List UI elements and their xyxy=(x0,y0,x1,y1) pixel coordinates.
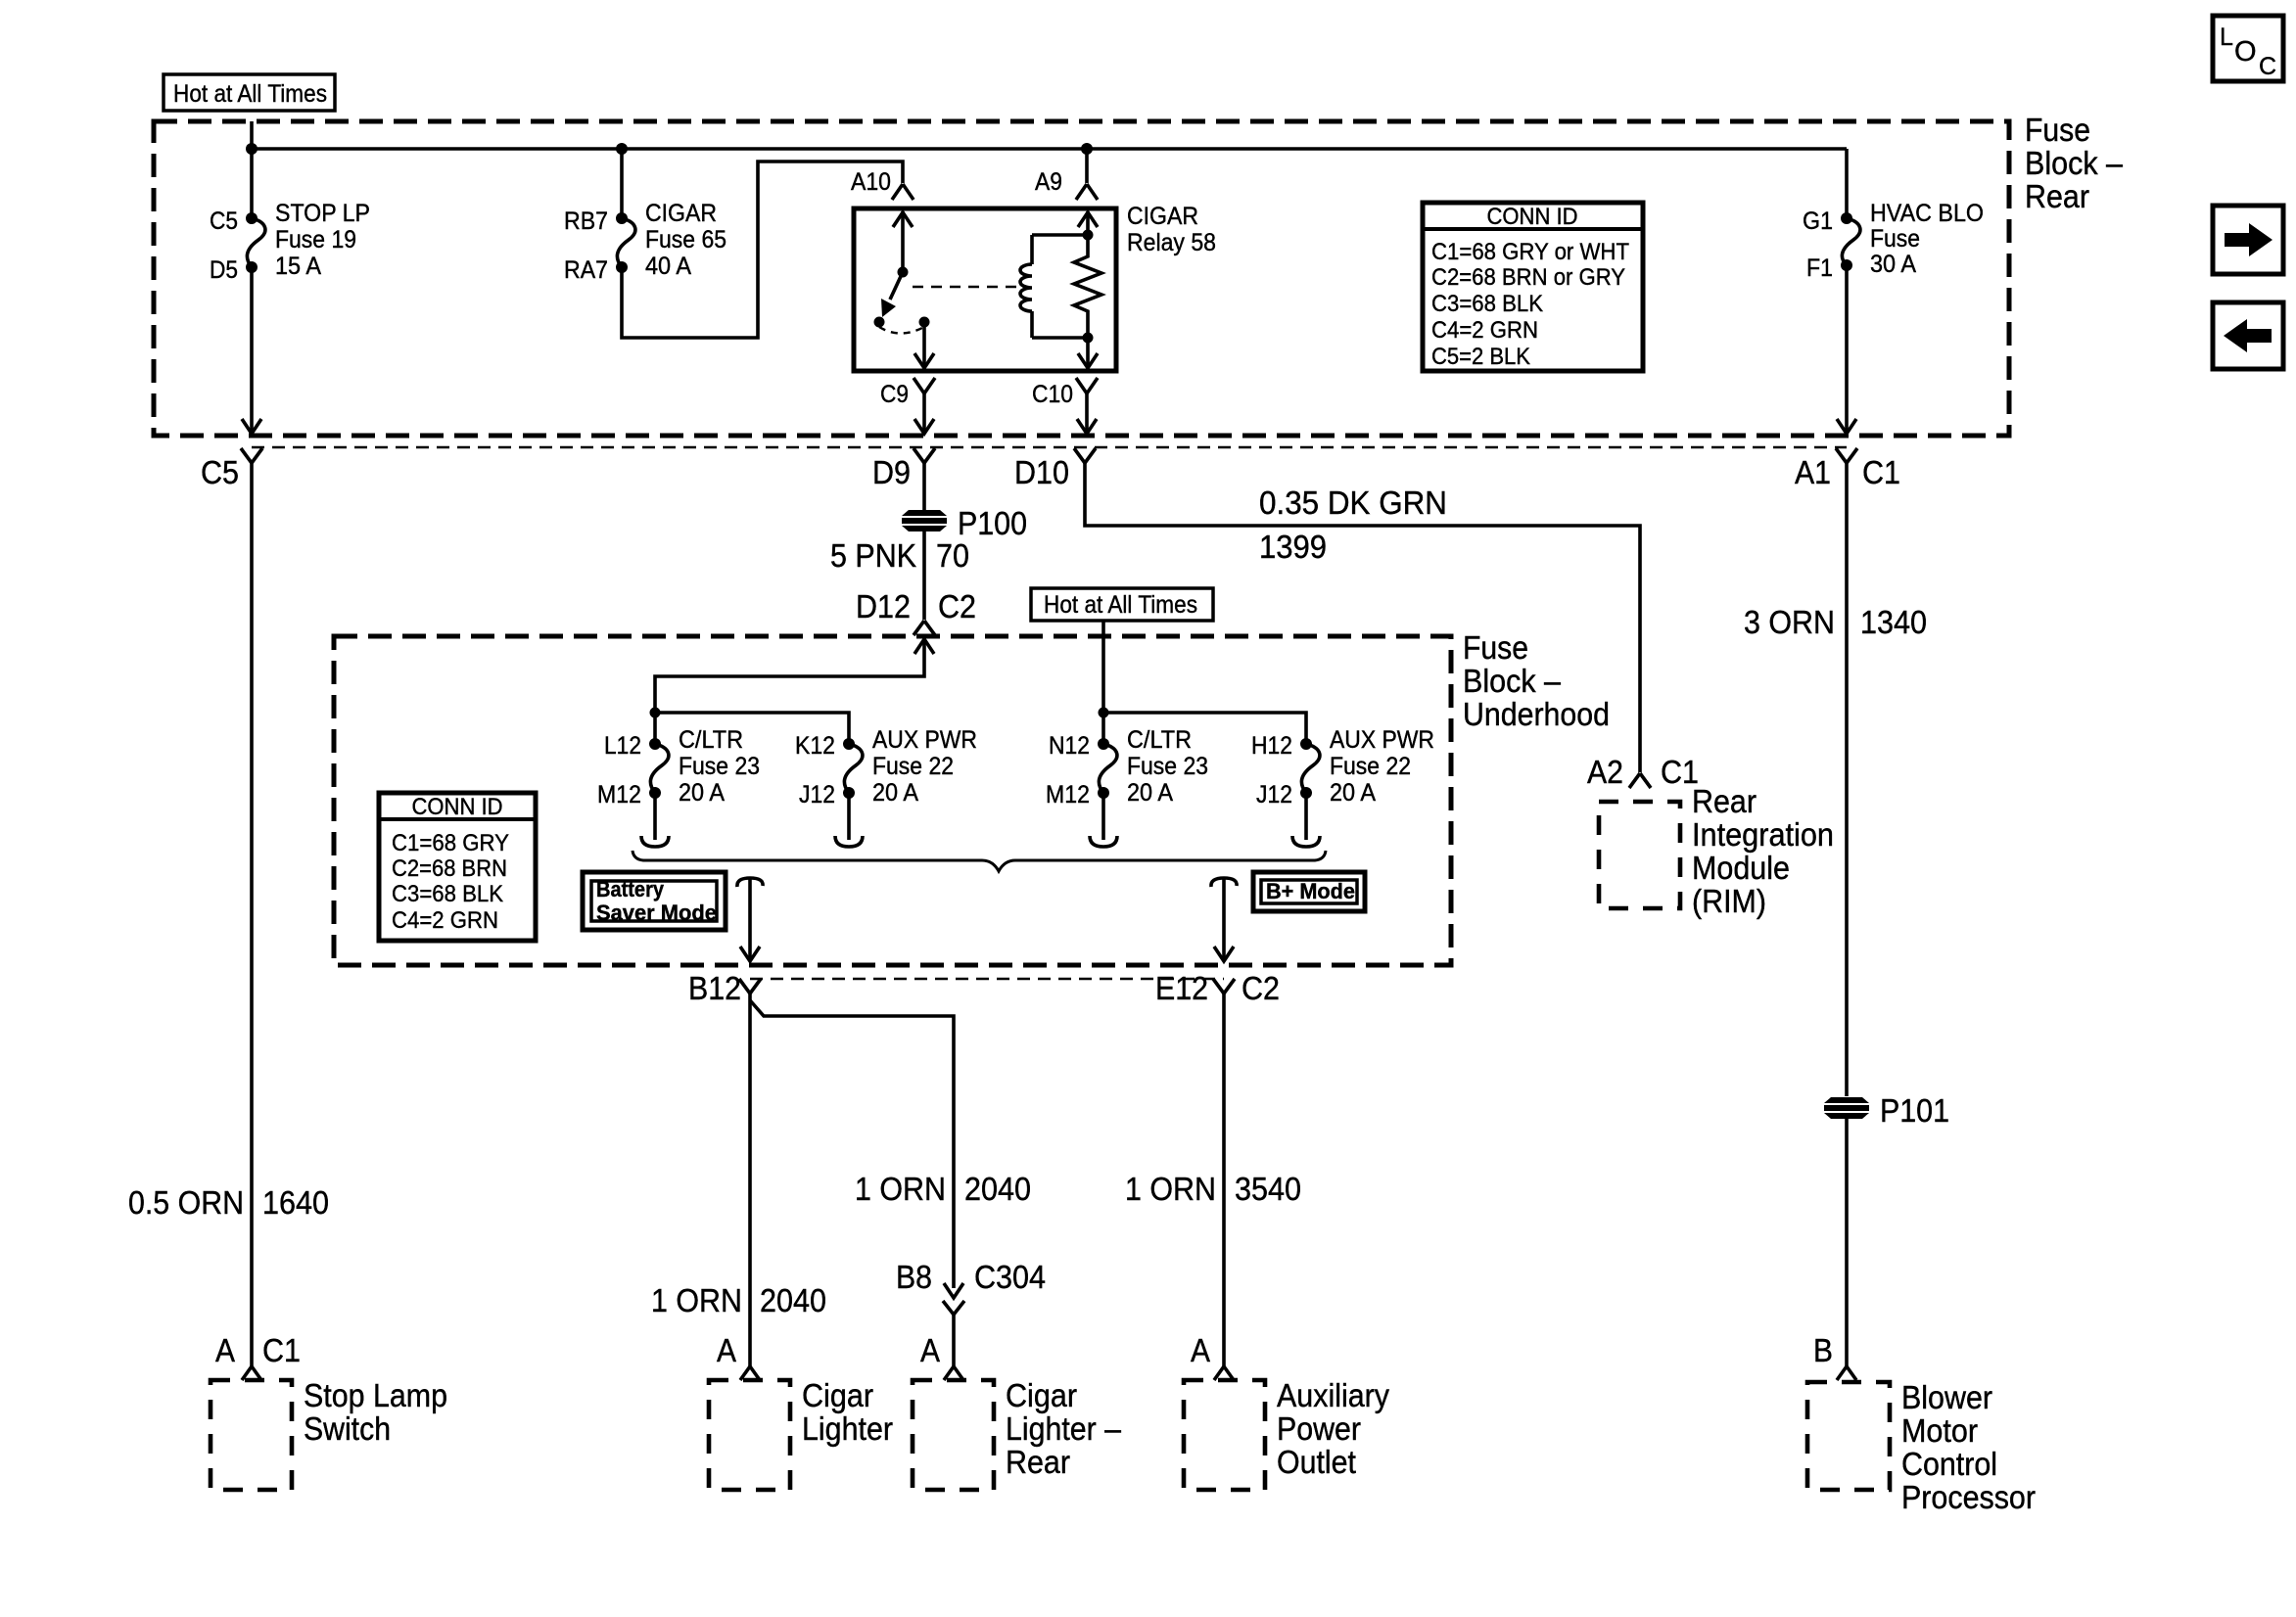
svg-text:Blower: Blower xyxy=(1901,1379,1992,1415)
svg-text:Block –: Block – xyxy=(2025,145,2124,181)
relay CIGAR Relay 58 box xyxy=(854,208,1116,371)
pin A connector and component box Cigar Lighter xyxy=(709,1332,893,1490)
svg-text:C: C xyxy=(2259,53,2276,80)
wire: main bus xyxy=(252,147,1847,151)
svg-text:Integration: Integration xyxy=(1692,816,1834,853)
svg-text:A: A xyxy=(717,1332,736,1368)
wire: bus to HVAC BLO fuse xyxy=(1845,149,1849,218)
svg-text:A10: A10 xyxy=(851,168,891,196)
pin A connector and component box Cigar Lighter - Rear xyxy=(913,1332,1122,1490)
fuse C/LTR Fuse 23 20 A (N12/M12) xyxy=(1046,726,1208,808)
svg-text:Battery: Battery xyxy=(596,877,665,901)
CONN ID table (underhood) xyxy=(379,793,536,941)
relay coil xyxy=(1020,235,1088,338)
svg-text:Cigar: Cigar xyxy=(802,1377,873,1413)
svg-text:STOP LP: STOP LP xyxy=(275,200,370,227)
wire: branch to rear cigar lighter 1 ORN 2040 xyxy=(750,1000,1031,1288)
svg-text:M12: M12 xyxy=(1046,781,1090,808)
relay switch input with up arrow xyxy=(893,211,913,278)
svg-text:CIGAR: CIGAR xyxy=(1127,203,1198,230)
svg-text:C9: C9 xyxy=(880,381,909,408)
svg-text:1640: 1640 xyxy=(262,1184,329,1221)
splice P101 xyxy=(1824,1092,1949,1129)
svg-text:Auxiliary: Auxiliary xyxy=(1277,1377,1389,1413)
svg-text:Rear: Rear xyxy=(1692,783,1757,819)
svg-text:Rear: Rear xyxy=(2025,178,2089,214)
wire: D12 feed into underhood block with up arrow xyxy=(655,639,934,713)
svg-text:RA7: RA7 xyxy=(564,256,608,284)
svg-text:RB7: RB7 xyxy=(564,208,608,235)
pin C9 connector and wire to border xyxy=(880,378,935,434)
svg-text:J12: J12 xyxy=(1256,781,1292,808)
svg-text:D9: D9 xyxy=(872,454,911,490)
nav arrow box right xyxy=(2213,206,2283,274)
svg-text:0.5 ORN: 0.5 ORN xyxy=(128,1184,244,1221)
svg-text:G1: G1 xyxy=(1803,208,1833,235)
wire: branch to fuse H12 xyxy=(1103,713,1306,744)
Fuse Block - Rear dashed outline xyxy=(154,121,2009,436)
svg-text:C1: C1 xyxy=(1862,454,1900,490)
svg-text:D5: D5 xyxy=(210,256,238,284)
svg-text:AUX PWR: AUX PWR xyxy=(872,726,977,754)
CONN ID table (rear block) xyxy=(1423,203,1643,371)
connector row dashed line below rear block xyxy=(252,446,1847,448)
relay switch contacts and travel arc xyxy=(874,317,930,334)
svg-text:C10: C10 xyxy=(1032,381,1073,408)
svg-text:0.35 DK GRN: 0.35 DK GRN xyxy=(1259,485,1447,521)
svg-text:CONN ID: CONN ID xyxy=(1487,204,1578,230)
svg-text:Fuse 23: Fuse 23 xyxy=(1127,753,1208,780)
svg-text:Module: Module xyxy=(1692,850,1790,886)
pin B12 connector xyxy=(688,970,761,1006)
wire: feed stub through dashed border xyxy=(250,121,254,149)
node: bus junction at relay A9 xyxy=(1081,143,1093,155)
pin A1 / C1 connector xyxy=(1795,448,1900,490)
svg-text:HVAC BLO: HVAC BLO xyxy=(1870,200,1984,227)
svg-text:20 A: 20 A xyxy=(679,779,725,807)
svg-text:C5: C5 xyxy=(210,208,238,235)
wire: STOP LP output to border with arrow xyxy=(242,267,261,434)
wire: bus drop to CIGAR fuse 65 xyxy=(620,149,624,218)
wire: branch to fuse L12 xyxy=(653,713,657,744)
svg-text:F1: F1 xyxy=(1806,254,1833,282)
relay switch output with down arrow xyxy=(914,322,934,368)
label: Battery Saver Mode xyxy=(583,872,726,930)
svg-text:2040: 2040 xyxy=(760,1282,826,1318)
node: coil-resistor junction top xyxy=(1083,230,1094,241)
svg-text:Fuse 19: Fuse 19 xyxy=(275,226,356,254)
node: bus junction at stop lp fuse xyxy=(246,143,258,155)
svg-text:C2=68 BRN or GRY: C2=68 BRN or GRY xyxy=(1431,264,1625,291)
svg-text:15 A: 15 A xyxy=(275,253,321,280)
fuse STOP LP Fuse 19 15 A (C5/D5) xyxy=(210,200,370,284)
svg-text:Fuse 22: Fuse 22 xyxy=(872,753,954,780)
LOC page icon box xyxy=(2213,16,2283,81)
svg-text:O: O xyxy=(2234,36,2257,68)
svg-text:40 A: 40 A xyxy=(645,253,691,280)
svg-text:5 PNK: 5 PNK xyxy=(830,537,916,574)
svg-text:3 ORN: 3 ORN xyxy=(1744,604,1835,640)
svg-text:Switch: Switch xyxy=(304,1410,391,1447)
Fuse Block - Underhood dashed outline xyxy=(334,636,1451,965)
svg-text:Fuse: Fuse xyxy=(1870,225,1920,253)
pin D12 / C2 connector into underhood block xyxy=(856,588,976,635)
svg-text:L12: L12 xyxy=(604,732,641,760)
svg-text:1399: 1399 xyxy=(1259,529,1327,565)
svg-text:C2: C2 xyxy=(1242,970,1280,1006)
wire: J12 output with hook xyxy=(1304,793,1308,840)
svg-text:2040: 2040 xyxy=(964,1171,1031,1207)
connector row dashed line below underhood block xyxy=(750,978,1224,980)
wire: branch to fuse K12 xyxy=(655,713,849,744)
svg-text:Stop Lamp: Stop Lamp xyxy=(304,1377,447,1413)
svg-text:D12: D12 xyxy=(856,588,911,624)
svg-text:J12: J12 xyxy=(799,781,835,808)
relay resistor with up arrow at pin A9 xyxy=(1074,211,1101,338)
relay actuation dashed link xyxy=(913,286,1018,288)
wire: 0.5 ORN 1640 from C5 to stop lamp switch xyxy=(128,463,329,1366)
svg-text:CIGAR: CIGAR xyxy=(645,200,717,227)
relay switch arm with arrowhead xyxy=(881,272,903,317)
fuse C/LTR Fuse 23 20 A (L12/M12) xyxy=(597,726,760,808)
svg-text:H12: H12 xyxy=(1251,732,1292,760)
pin D9 connector xyxy=(872,448,935,490)
svg-text:C5=2 BLK: C5=2 BLK xyxy=(1431,344,1530,370)
svg-text:A: A xyxy=(215,1332,235,1368)
svg-text:CONN ID: CONN ID xyxy=(412,794,503,820)
wire: M12 output with hook xyxy=(653,793,657,840)
svg-text:Fuse 22: Fuse 22 xyxy=(1330,753,1411,780)
svg-text:Fuse 23: Fuse 23 xyxy=(679,753,760,780)
wire: P101 to blower connector xyxy=(1845,1119,1849,1366)
svg-text:20 A: 20 A xyxy=(1330,779,1376,807)
svg-text:C/LTR: C/LTR xyxy=(1127,726,1192,754)
svg-text:Fuse: Fuse xyxy=(1463,629,1528,666)
fuse HVAC BLO 30 A (G1/F1) xyxy=(1803,200,1984,282)
svg-text:Outlet: Outlet xyxy=(1277,1444,1356,1480)
wire: D10 0.35 DK GRN 1399 to RIM xyxy=(1085,463,1640,772)
wire: bus drop to relay pin A9 xyxy=(1085,149,1089,183)
svg-text:1 ORN: 1 ORN xyxy=(651,1282,742,1318)
pin D10 connector xyxy=(1014,448,1096,490)
svg-text:Fuse 65: Fuse 65 xyxy=(645,226,726,254)
label: CIGAR Relay 58 xyxy=(1127,203,1216,256)
svg-text:AUX PWR: AUX PWR xyxy=(1330,726,1434,754)
fuse AUX PWR Fuse 22 20 A (H12/J12) xyxy=(1251,726,1434,808)
svg-text:Control: Control xyxy=(1901,1446,1997,1482)
svg-text:L: L xyxy=(2220,23,2233,51)
brace gathering fuse outputs xyxy=(633,851,1326,871)
wire: 5 PNK 70 xyxy=(830,531,969,620)
svg-text:Underhood: Underhood xyxy=(1463,696,1610,732)
svg-text:C4=2 GRN: C4=2 GRN xyxy=(392,907,498,934)
svg-text:C/LTR: C/LTR xyxy=(679,726,743,754)
svg-text:D10: D10 xyxy=(1014,454,1069,490)
wire: B12 to cigar lighter 1 ORN 2040 xyxy=(651,993,826,1366)
pin A10 connector xyxy=(851,168,914,200)
label: Hot at All Times (rear block) xyxy=(164,74,335,111)
svg-text:A1: A1 xyxy=(1795,454,1831,490)
svg-text:Block –: Block – xyxy=(1463,663,1562,699)
wire: branch to fuse N12 xyxy=(1101,713,1105,744)
wire: D9 to splice xyxy=(922,463,926,510)
node: left feed junction xyxy=(650,708,661,718)
svg-text:Processor: Processor xyxy=(1901,1479,2036,1515)
relay resistor output with down arrow xyxy=(1078,338,1098,368)
label: Fuse Block - Rear xyxy=(2025,112,2124,214)
svg-text:Hot at All Times: Hot at All Times xyxy=(173,80,327,108)
svg-text:Cigar: Cigar xyxy=(1006,1377,1077,1413)
pin E12 / C2 connector xyxy=(1155,970,1280,1006)
wire: E12 to aux power outlet 1 ORN 3540 xyxy=(1125,993,1301,1366)
label: Fuse Block - Underhood xyxy=(1463,629,1610,732)
wire: M12 output with hook xyxy=(1101,793,1105,840)
svg-text:K12: K12 xyxy=(795,732,835,760)
svg-text:C3=68 BLK: C3=68 BLK xyxy=(1431,291,1543,317)
svg-text:1 ORN: 1 ORN xyxy=(855,1171,946,1207)
svg-text:Rear: Rear xyxy=(1006,1444,1070,1480)
node: right feed junction xyxy=(1099,708,1109,718)
pin A2 / C1 connector at RIM xyxy=(1587,754,1699,790)
node: bus junction at cigar fuse xyxy=(616,143,628,155)
fuse AUX PWR Fuse 22 20 A (K12/J12) xyxy=(795,726,977,808)
fuse CIGAR Fuse 65 40 A (RB7/RA7) xyxy=(564,200,726,284)
svg-text:P101: P101 xyxy=(1880,1092,1949,1129)
in-line connector B8 / C304 xyxy=(896,1259,1046,1366)
svg-text:1 ORN: 1 ORN xyxy=(1125,1171,1216,1207)
pin B connector and component box Blower Motor Control Processor xyxy=(1807,1332,2036,1515)
svg-text:(RIM): (RIM) xyxy=(1692,883,1766,919)
svg-text:Lighter –: Lighter – xyxy=(1006,1410,1122,1447)
svg-text:N12: N12 xyxy=(1049,732,1090,760)
svg-text:C5: C5 xyxy=(201,454,239,490)
svg-text:C4=2 GRN: C4=2 GRN xyxy=(1431,317,1538,344)
svg-text:M12: M12 xyxy=(597,781,641,808)
svg-text:A: A xyxy=(920,1332,940,1368)
svg-text:A2: A2 xyxy=(1587,754,1623,790)
wire: HVAC output to border with arrow xyxy=(1837,265,1856,434)
svg-text:E12: E12 xyxy=(1155,970,1208,1006)
svg-text:C1: C1 xyxy=(262,1332,301,1368)
svg-text:Fuse: Fuse xyxy=(2025,112,2090,148)
wire: A1 3 ORN 1340 down right side xyxy=(1744,463,1927,1096)
nav arrow box left xyxy=(2213,302,2283,369)
svg-text:A9: A9 xyxy=(1035,168,1062,196)
svg-text:C304: C304 xyxy=(974,1259,1046,1295)
pin C10 connector and wire to border xyxy=(1032,378,1098,434)
svg-text:B: B xyxy=(1813,1332,1833,1368)
svg-text:C3=68 BLK: C3=68 BLK xyxy=(392,881,503,907)
svg-text:Hot at All Times: Hot at All Times xyxy=(1044,591,1197,619)
pin A connector and component box Auxiliary Power Outlet xyxy=(1184,1332,1389,1490)
svg-text:Motor: Motor xyxy=(1901,1412,1978,1449)
svg-text:Lighter: Lighter xyxy=(802,1410,893,1447)
wire: cigar fuse output to relay pin A10 xyxy=(622,162,903,338)
svg-text:B12: B12 xyxy=(688,970,741,1006)
svg-text:C2=68 BRN: C2=68 BRN xyxy=(392,855,507,882)
wire: battery saver mode drop to B12 with arrow xyxy=(737,878,763,961)
svg-text:Power: Power xyxy=(1277,1410,1361,1447)
pin C5 connector (rear block to stop lamp circuit) xyxy=(201,448,262,490)
wire: B+ mode drop to E12 with arrow xyxy=(1211,878,1237,961)
label: B+ Mode xyxy=(1253,872,1365,911)
svg-text:C1=68 GRY: C1=68 GRY xyxy=(392,830,509,856)
svg-text:3540: 3540 xyxy=(1235,1171,1301,1207)
svg-text:A: A xyxy=(1191,1332,1210,1368)
svg-text:70: 70 xyxy=(936,537,969,574)
svg-text:1340: 1340 xyxy=(1860,604,1927,640)
label: Hot at All Times (underhood) xyxy=(1031,588,1213,621)
svg-text:B+ Mode: B+ Mode xyxy=(1266,879,1355,903)
wire: J12 output with hook xyxy=(847,793,851,840)
svg-text:P100: P100 xyxy=(958,505,1027,541)
wire: hot feed drop into underhood block xyxy=(1101,621,1105,713)
svg-text:30 A: 30 A xyxy=(1870,251,1916,278)
svg-text:Saver Mode: Saver Mode xyxy=(596,901,717,925)
pin A9 connector xyxy=(1035,168,1098,200)
wire: bus drop to STOP LP fuse xyxy=(250,149,254,218)
component box Rear Integration Module (RIM) xyxy=(1599,783,1834,919)
svg-text:B8: B8 xyxy=(896,1259,932,1295)
svg-text:C2: C2 xyxy=(938,588,976,624)
svg-text:20 A: 20 A xyxy=(1127,779,1173,807)
pin A / C1 connector and component box Stop Lamp Switch xyxy=(211,1332,447,1490)
splice P100 xyxy=(902,505,1027,541)
svg-text:Relay 58: Relay 58 xyxy=(1127,229,1216,256)
node: coil-resistor junction bottom xyxy=(1083,333,1094,344)
svg-text:C1=68 GRY or WHT: C1=68 GRY or WHT xyxy=(1431,239,1629,265)
svg-text:20 A: 20 A xyxy=(872,779,918,807)
